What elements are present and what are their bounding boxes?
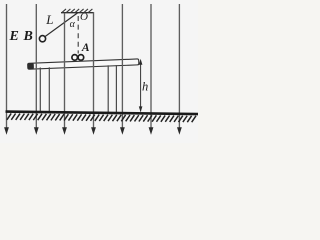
svg-text:A: A — [81, 42, 90, 54]
svg-text:h: h — [142, 79, 148, 93]
svg-text:L: L — [45, 12, 53, 27]
svg-text:E: E — [9, 29, 19, 44]
svg-text:α: α — [70, 19, 76, 30]
svg-text:O: O — [80, 11, 88, 23]
svg-text:B: B — [23, 29, 33, 44]
